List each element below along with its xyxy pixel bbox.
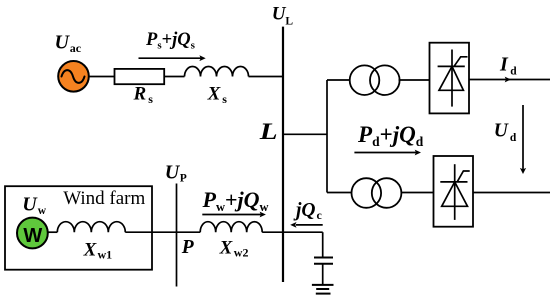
svg-text:Uw: Uw xyxy=(22,194,46,218)
svg-text:UP: UP xyxy=(165,161,187,184)
svg-text:P: P xyxy=(181,237,195,258)
svg-text:L: L xyxy=(259,119,278,144)
svg-text:Uac: Uac xyxy=(55,32,82,55)
svg-text:Pd+jQd: Pd+jQd xyxy=(357,122,424,149)
svg-text:Ps+jQs: Ps+jQs xyxy=(145,30,196,52)
svg-text:Pw+jQw: Pw+jQw xyxy=(202,187,269,214)
svg-text:jQc: jQc xyxy=(293,200,323,222)
svg-text:UL: UL xyxy=(272,4,294,28)
svg-text:Ud: Ud xyxy=(494,120,517,144)
svg-text:Wind farm: Wind farm xyxy=(63,188,145,209)
svg-text:W: W xyxy=(23,225,42,247)
svg-text:Rs: Rs xyxy=(133,84,154,107)
svg-text:Xw2: Xw2 xyxy=(219,238,249,260)
svg-text:Id: Id xyxy=(499,54,517,78)
svg-text:Xs: Xs xyxy=(207,83,228,106)
svg-text:Xw1: Xw1 xyxy=(83,239,113,261)
